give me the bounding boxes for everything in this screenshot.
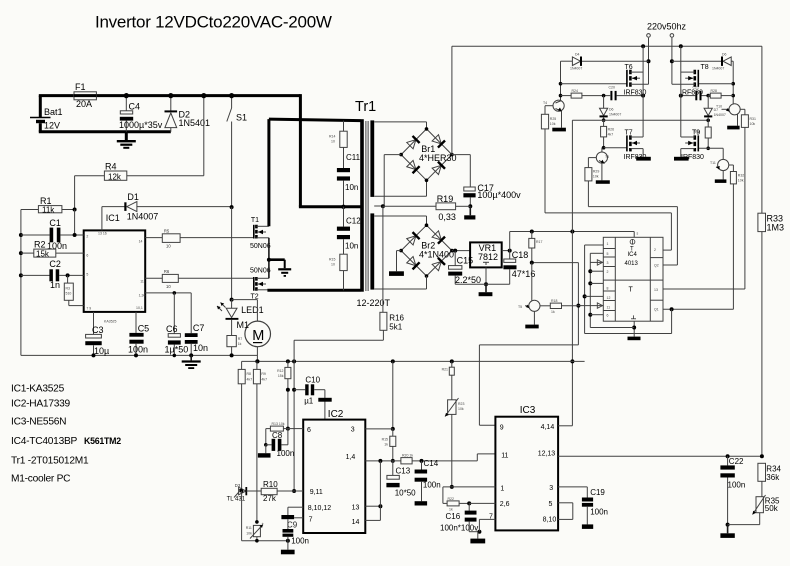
- svg-text:R13 10k: R13 10k: [272, 422, 285, 426]
- svg-text:5k1: 5k1: [389, 323, 402, 332]
- wire left bus x578: [532, 263, 604, 345]
- svg-text:5: 5: [86, 273, 88, 277]
- svg-text:13: 13: [352, 505, 360, 512]
- svg-text:50N06: 50N06: [250, 268, 271, 275]
- svg-text:K561TM2: K561TM2: [84, 436, 121, 446]
- wire secondary to Br1 bottom corner: [374, 180, 426, 197]
- resistor R10 27k: [246, 480, 294, 503]
- svg-text:R31: R31: [750, 117, 756, 121]
- diode D7 1N4007: [704, 96, 726, 121]
- resistor R24: [561, 89, 611, 98]
- svg-text:100n: 100n: [423, 481, 441, 490]
- transistor T1 50N06: [250, 217, 271, 250]
- svg-text:F1: F1: [75, 82, 86, 92]
- diode D4 1N4007: [561, 53, 649, 71]
- svg-text:R28: R28: [711, 89, 717, 93]
- resistor R14b small: [382, 429, 396, 463]
- wire T8 gate: [699, 83, 734, 85]
- svg-text:1k: 1k: [384, 443, 388, 447]
- svg-text:Invertor 12VDCto220VAC-200W: Invertor 12VDCto220VAC-200W: [95, 13, 332, 32]
- wire mid rail y361: [242, 359, 585, 363]
- svg-text:2: 2: [86, 235, 88, 239]
- wire T7 source to common bar: [636, 149, 651, 161]
- wire IC3 pin 12,13 line: [558, 454, 764, 458]
- svg-text:T7: T7: [625, 129, 633, 136]
- capacitor C20: [602, 86, 645, 101]
- wire IC3 pin 2,6: [469, 502, 495, 504]
- svg-text:R7: R7: [238, 337, 243, 341]
- wire IC4 bottom pin to ground bar: [590, 321, 640, 340]
- svg-text:R20 1k: R20 1k: [402, 454, 413, 458]
- svg-text:M1-cooler PC: M1-cooler PC: [11, 474, 70, 485]
- svg-text:10n: 10n: [345, 183, 358, 192]
- capacitor C9 100n: [281, 515, 309, 554]
- transistor U3 driver: [716, 104, 745, 130]
- svg-text:1,4: 1,4: [346, 454, 356, 461]
- resistor R28: [708, 89, 733, 98]
- svg-text:15k: 15k: [36, 249, 50, 258]
- transistor U2 driver: [588, 148, 609, 184]
- svg-text:C3: C3: [92, 325, 104, 335]
- svg-text:1N4007: 1N4007: [127, 212, 159, 222]
- svg-text:8: 8: [607, 287, 609, 291]
- svg-text:R15: R15: [329, 258, 335, 262]
- capacitor C18 47*16: [502, 249, 536, 285]
- wire right edge drop + resistor R33 1M3: [758, 46, 784, 456]
- transistor T3 near IC4: [518, 232, 578, 329]
- capacitor C21: [679, 86, 710, 101]
- resistor R26: [601, 120, 614, 149]
- svg-text:T6: T6: [625, 64, 633, 71]
- resistor R19 0,33: [383, 194, 470, 222]
- svg-text:C7: C7: [193, 323, 205, 333]
- svg-text:10n: 10n: [345, 242, 358, 251]
- capacitor C7 10n: [185, 293, 208, 358]
- resistor R25 10k: [541, 106, 556, 213]
- svg-text:10*50: 10*50: [395, 489, 416, 498]
- svg-text:C10: C10: [305, 376, 320, 385]
- svg-text:R22: R22: [448, 497, 454, 501]
- svg-text:R14: R14: [329, 135, 335, 139]
- wire cross lines to IC4 right: [545, 207, 677, 265]
- svg-text:T11: T11: [710, 161, 716, 165]
- svg-text:27k: 27k: [263, 494, 277, 503]
- regulator VR1 7812: [470, 242, 502, 267]
- svg-text:1,36: 1,36: [139, 294, 146, 298]
- capacitor C2 1n: [21, 259, 84, 290]
- svg-text:15k: 15k: [278, 374, 284, 378]
- capacitor C22 100n: [720, 456, 745, 538]
- wire top +12 rail: [39, 94, 301, 97]
- svg-text:1k: 1k: [238, 342, 242, 346]
- wire T9 source to common bar: [674, 149, 689, 161]
- svg-text:s: s: [637, 232, 639, 236]
- svg-text:7812: 7812: [478, 252, 498, 262]
- resistor R20: [401, 454, 477, 464]
- svg-text:R5: R5: [164, 228, 170, 233]
- svg-text:10: 10: [166, 244, 171, 249]
- svg-text:D4: D4: [575, 53, 580, 57]
- svg-text:T4: T4: [543, 101, 547, 105]
- svg-text:C5: C5: [138, 324, 150, 334]
- svg-text:0,33: 0,33: [438, 212, 456, 222]
- resistor R6 10: [145, 269, 254, 289]
- svg-text:5: 5: [607, 252, 609, 256]
- wire +12 output up to bus: [510, 230, 635, 251]
- IC3 NE556N box: [489, 405, 558, 530]
- wire IC4 right pins: [585, 250, 745, 333]
- svg-text:3: 3: [549, 485, 553, 492]
- svg-text:T5: T5: [518, 305, 522, 309]
- left bus vertical: [19, 210, 23, 356]
- svg-text:1: 1: [500, 486, 504, 493]
- wire IC3 pin5 to 8,10 loop: [558, 503, 573, 520]
- wire center tap down: [374, 204, 385, 312]
- svg-text:10k: 10k: [246, 532, 252, 536]
- svg-text:12V: 12V: [44, 121, 60, 131]
- svg-text:10: 10: [331, 140, 335, 144]
- svg-text:T1: T1: [251, 217, 259, 224]
- svg-text:6: 6: [86, 254, 88, 258]
- resistor R9 4k7: [253, 361, 267, 522]
- wire LED node: [230, 207, 234, 302]
- svg-text:R9: R9: [261, 372, 266, 376]
- svg-text:2: 2: [607, 270, 609, 274]
- transistor T2 50N06: [250, 268, 271, 301]
- svg-text:4k7: 4k7: [608, 133, 614, 137]
- svg-text:C1: C1: [49, 218, 61, 228]
- svg-text:14: 14: [352, 519, 360, 526]
- svg-text:R18: R18: [551, 299, 557, 303]
- wire IC2 pin 9,11: [294, 490, 303, 492]
- svg-text:C20: C20: [609, 86, 615, 90]
- svg-text:9,11: 9,11: [310, 489, 323, 496]
- svg-text:2.2*50: 2.2*50: [455, 275, 481, 285]
- resistor R34 36k: [758, 463, 782, 496]
- capacitor C6 1u*50: [165, 293, 189, 357]
- svg-text:C16: C16: [446, 512, 461, 521]
- svg-text:R8: R8: [247, 372, 252, 376]
- svg-text:4*1N400: 4*1N400: [419, 250, 454, 260]
- svg-text:T5: T5: [605, 155, 609, 159]
- svg-text:7: 7: [309, 517, 313, 524]
- svg-text:1N4007: 1N4007: [712, 67, 724, 71]
- svg-text:M1: M1: [237, 320, 250, 330]
- svg-text:C22: C22: [729, 457, 744, 466]
- wire left bus x584: [583, 245, 604, 334]
- svg-text:R17: R17: [536, 240, 542, 244]
- wire secondary lower to Br2 top: [374, 216, 426, 226]
- LED1: [217, 300, 264, 336]
- svg-text:4,14: 4,14: [541, 424, 555, 431]
- svg-text:R19: R19: [437, 194, 454, 204]
- svg-text:10,1: 10,1: [136, 306, 143, 310]
- transistor T8 IRF830: [672, 64, 709, 97]
- capacitor C5 100n: [128, 312, 149, 358]
- svg-text:100n: 100n: [291, 537, 309, 546]
- svg-text:C13: C13: [396, 467, 411, 476]
- transistor U4 driver: [710, 148, 733, 183]
- resistor R30: [694, 120, 712, 150]
- trimmer R35 50k: [728, 495, 780, 525]
- bridge Br2 4*1N400x: [399, 223, 454, 277]
- svg-text:6: 6: [307, 427, 311, 434]
- svg-text:5: 5: [549, 501, 553, 508]
- wire Br1 right to C17: [452, 155, 470, 187]
- resistor R1 11k: [21, 196, 77, 235]
- resistor R32 10k: [730, 165, 744, 309]
- diode D1 1N4007: [102, 192, 234, 222]
- svg-text:11: 11: [501, 453, 508, 460]
- svg-text:LED1: LED1: [241, 305, 264, 315]
- svg-text:100n: 100n: [590, 508, 608, 517]
- svg-text:IC2: IC2: [328, 409, 344, 420]
- svg-text:R25: R25: [550, 117, 556, 121]
- motor M1 cooler: [232, 300, 271, 364]
- svg-text:1k: 1k: [551, 310, 555, 314]
- svg-text:2,6: 2,6: [500, 501, 510, 508]
- svg-text:9: 9: [500, 425, 504, 432]
- snubber R15: [329, 254, 347, 290]
- svg-text:C12: C12: [346, 217, 361, 226]
- svg-text:D6: D6: [609, 108, 614, 112]
- wire Br1 left corner to R19 node: [384, 155, 401, 207]
- capacitor C17 100u*400v: [463, 183, 521, 220]
- diode D6b 1N4007: [672, 53, 733, 71]
- capacitor C1 100n: [21, 218, 84, 251]
- svg-text:10k: 10k: [738, 179, 744, 183]
- svg-text:Q2: Q2: [654, 264, 659, 268]
- ground under C7 rail: [182, 355, 201, 369]
- wire IC4 top pin: [634, 232, 638, 238]
- svg-text:R16: R16: [389, 314, 404, 323]
- svg-text:4*HER30: 4*HER30: [419, 153, 457, 163]
- wire IC3 pin 3 + capacitor C19 100n: [558, 487, 608, 529]
- wire IC3 pin 7: [479, 519, 495, 531]
- svg-text:1N4007: 1N4007: [609, 113, 621, 117]
- svg-text:11: 11: [607, 305, 611, 309]
- svg-text:IRF830: IRF830: [680, 90, 703, 97]
- wire IC3 pin 4,14: [558, 425, 572, 427]
- thermistor column: [442, 361, 465, 489]
- switch S1: [227, 93, 247, 207]
- svg-text:Tr1 -2T015012M1: Tr1 -2T015012M1: [11, 456, 89, 467]
- diode D6 1N4007: [600, 96, 622, 122]
- svg-text:M: M: [252, 328, 264, 344]
- svg-text:T9: T9: [692, 129, 700, 136]
- wire IC2 pins 1,4 row: [365, 459, 401, 463]
- resistor R29 10k: [585, 158, 599, 207]
- svg-text:12k: 12k: [108, 172, 122, 181]
- svg-text:C11: C11: [346, 153, 361, 162]
- svg-text:100µ*400v: 100µ*400v: [477, 190, 521, 200]
- svg-text:11: 11: [140, 280, 144, 284]
- svg-text:R12: R12: [277, 369, 283, 373]
- svg-text:R29: R29: [593, 170, 599, 174]
- svg-text:4k7: 4k7: [247, 378, 253, 382]
- svg-text:510: 510: [66, 292, 72, 296]
- svg-text:C6: C6: [166, 324, 178, 334]
- svg-text:C18: C18: [512, 250, 529, 260]
- wire T1 source T2 junction + ground: [267, 238, 291, 278]
- svg-text:R3: R3: [66, 287, 71, 291]
- resistor R3 510: [64, 275, 83, 305]
- wire T6 gate: [561, 83, 627, 85]
- wire feedback column x294: [292, 361, 296, 493]
- resistor R7: [227, 336, 242, 358]
- svg-text:IC1-KA3525: IC1-KA3525: [11, 384, 65, 395]
- svg-text:IC1: IC1: [106, 213, 120, 223]
- trimmer pot bottom left: [246, 520, 265, 541]
- svg-text:100n: 100n: [277, 449, 295, 458]
- wire T9 gate: [699, 147, 724, 149]
- svg-text:50k: 50k: [765, 504, 779, 513]
- capacitor C11 10n: [337, 153, 361, 207]
- svg-text:3: 3: [351, 427, 355, 434]
- resistor R8 4k7: [238, 361, 252, 491]
- svg-text:R10: R10: [263, 480, 278, 489]
- capacitor C12 10n: [337, 205, 361, 255]
- bridge Br1 4*HER30x: [399, 127, 456, 182]
- svg-text:10µ: 10µ: [94, 346, 109, 356]
- svg-text:R4: R4: [105, 162, 117, 172]
- svg-text:1: 1: [607, 242, 609, 246]
- resistor R16 5k1: [294, 312, 404, 361]
- svg-text:10n: 10n: [193, 343, 208, 353]
- svg-text:D7: D7: [714, 108, 719, 112]
- resistor R2 15k: [21, 240, 84, 259]
- svg-text:µ1: µ1: [304, 397, 314, 406]
- ground bar under C16 node: [470, 532, 485, 544]
- svg-text:D3: D3: [235, 483, 241, 488]
- svg-text:1000µ*35v: 1000µ*35v: [119, 120, 163, 130]
- svg-text:TL 431: TL 431: [227, 497, 246, 503]
- wire IC1 pin to C6 C7: [145, 291, 191, 295]
- 220v50hz output terminals: [647, 22, 687, 85]
- wire IC3 pin9 loop: [479, 345, 578, 425]
- resistor R4 12k: [75, 162, 204, 210]
- wire bottom rail left: [242, 491, 290, 543]
- svg-text:10: 10: [166, 284, 171, 289]
- svg-text:8,10: 8,10: [543, 517, 557, 524]
- svg-text:10k: 10k: [458, 407, 464, 411]
- capacitor C10 u1: [294, 376, 325, 406]
- ground under C4: [117, 132, 136, 149]
- svg-text:IC4-TC4013BP: IC4-TC4013BP: [11, 436, 78, 447]
- wire VR1 ground pin: [455, 267, 510, 296]
- svg-text:Tr1: Tr1: [355, 99, 376, 115]
- svg-text:13 16: 13 16: [98, 232, 107, 236]
- wire left bus x590: [588, 253, 603, 327]
- wire IC2 pin13 pin14: [365, 461, 382, 521]
- wire IC2 pin6: [288, 428, 303, 430]
- resistor R31 10k: [741, 109, 756, 289]
- svg-text:1N4007: 1N4007: [570, 67, 582, 71]
- svg-text:2: 2: [654, 248, 656, 252]
- wire IC3 pin 1 row: [443, 487, 496, 504]
- svg-text:10k: 10k: [550, 122, 556, 126]
- svg-text:1N5401: 1N5401: [179, 118, 211, 128]
- transistor T9 IRF830: [681, 129, 704, 161]
- resistor R12: [277, 361, 291, 430]
- wire Br2 left to ground bar: [389, 251, 404, 276]
- svg-text:8,10,12: 8,10,12: [308, 505, 331, 512]
- wire Br2 right to VR1: [452, 249, 470, 253]
- svg-text:KA3525: KA3525: [104, 320, 117, 324]
- wire right cell driver column: [731, 61, 735, 104]
- transistor T6 IRF830: [624, 64, 649, 97]
- svg-text:IC3-NE556N: IC3-NE556N: [11, 417, 66, 428]
- wire battery bottom rail: [39, 130, 171, 133]
- svg-text:11k: 11k: [42, 205, 55, 214]
- svg-text:100n: 100n: [728, 481, 746, 490]
- IC2 top pin bar: [318, 390, 331, 420]
- svg-text:R24: R24: [572, 89, 578, 93]
- svg-text:6: 6: [607, 314, 609, 318]
- wire primary bottom: [267, 289, 360, 291]
- svg-text:4013: 4013: [625, 261, 639, 267]
- fuse F1 20A: [74, 82, 96, 109]
- svg-text:20A: 20A: [76, 99, 92, 109]
- svg-text:10k: 10k: [593, 175, 599, 179]
- capacitor C4 1000u*35v: [119, 93, 163, 132]
- svg-text:S1: S1: [236, 113, 247, 123]
- capacitor C14 100n: [415, 459, 441, 506]
- wire secondary top to Br1: [374, 122, 426, 130]
- svg-text:R15: R15: [382, 438, 388, 442]
- capacitor C8 100n: [258, 429, 294, 458]
- IC1 box KA3525: [84, 207, 146, 324]
- svg-text:R32: R32: [738, 174, 744, 178]
- wire 220v high rail: [452, 44, 762, 48]
- diode D2 1N5401: [165, 93, 211, 132]
- svg-text:1µ*50: 1µ*50: [165, 345, 189, 355]
- snubber R14: [329, 121, 347, 168]
- svg-text:T8: T8: [701, 64, 709, 71]
- svg-text:4k7: 4k7: [261, 378, 267, 382]
- svg-text:12,13: 12,13: [538, 451, 556, 458]
- transistor U1 driver: [543, 100, 566, 131]
- battery Bat1 12V: [30, 96, 63, 132]
- svg-text:R6: R6: [164, 269, 170, 274]
- wire cross line y120: [570, 119, 710, 426]
- wire IC1 bottom rail: [21, 354, 258, 356]
- wire R4 riser: [201, 93, 206, 176]
- wire left cell driver column: [559, 61, 563, 100]
- svg-text:3: 3: [607, 261, 609, 265]
- svg-text:1M3: 1M3: [767, 223, 785, 233]
- IC4 TC4013BP box: [603, 237, 663, 321]
- svg-text:T: T: [629, 287, 634, 294]
- capacitor C3 10u: [85, 312, 109, 358]
- svg-text:1n: 1n: [50, 280, 60, 290]
- svg-text:1N4007: 1N4007: [714, 113, 726, 117]
- wire +12 center tap feed: [299, 94, 361, 207]
- svg-text:7 9: 7 9: [86, 306, 91, 310]
- TL431 D3: [227, 483, 247, 503]
- svg-text:100n*100v: 100n*100v: [440, 524, 478, 533]
- resistor R5 10: [145, 228, 254, 248]
- svg-text:R2: R2: [34, 240, 46, 250]
- svg-text:IC2-HA17339: IC2-HA17339: [11, 399, 71, 410]
- svg-text:10: 10: [331, 263, 335, 267]
- capacitor C16 100n*100v: [440, 503, 481, 533]
- wire T8/T9 drain column: [680, 46, 682, 137]
- svg-text:12-220T: 12-220T: [357, 298, 391, 308]
- svg-text:R11: R11: [246, 526, 252, 530]
- wire T7 gate: [604, 147, 627, 149]
- svg-text:50N06: 50N06: [250, 243, 271, 250]
